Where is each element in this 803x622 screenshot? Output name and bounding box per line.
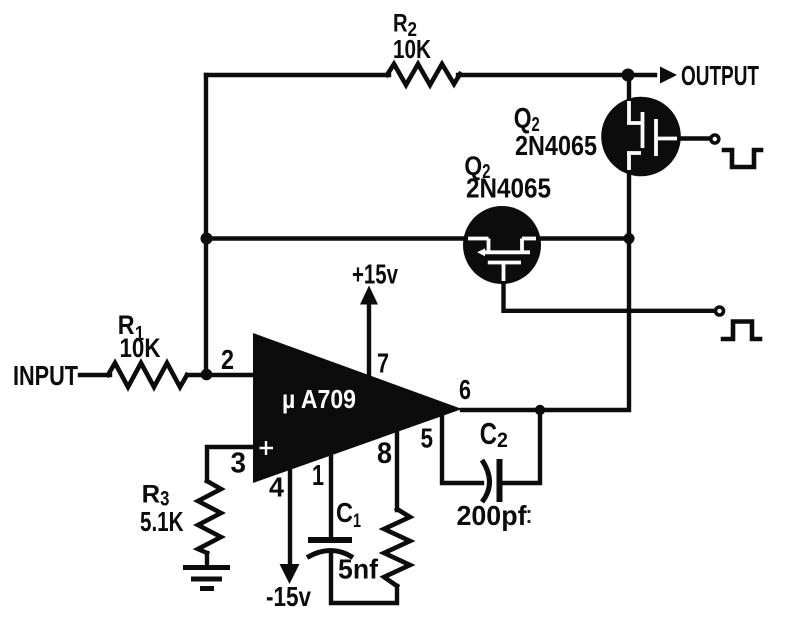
label + non-inverting input — [260, 441, 274, 455]
wire input to pin 2 — [187, 373, 253, 377]
arrow +15V — [360, 286, 378, 305]
resistor R2 — [387, 64, 460, 85]
ground — [183, 568, 230, 589]
svg-text:OUTPUT: OUTPUT — [681, 60, 759, 91]
node junction top right — [622, 69, 635, 82]
svg-text:5nf: 5nf — [338, 554, 379, 585]
svg-text:2N4065: 2N4065 — [466, 173, 551, 204]
wire pin 3 lead — [207, 447, 253, 481]
capacitor C1 — [307, 540, 353, 558]
svg-text:C: C — [336, 497, 353, 528]
svg-text:2N4065: 2N4065 — [515, 130, 597, 161]
svg-text:µ A709: µ A709 — [282, 384, 356, 414]
node junction C2 output — [535, 405, 545, 415]
svg-text:INPUT: INPUT — [13, 360, 78, 391]
svg-text:+15v: +15v — [352, 259, 399, 290]
svg-text:1: 1 — [353, 511, 361, 532]
transistor Q2 upper (2N4065) — [601, 97, 681, 177]
wire input lead — [80, 373, 110, 377]
svg-text:10K: 10K — [120, 333, 161, 363]
wire C1 bottom to resistor bottom — [331, 552, 397, 603]
transistor Q2 lower (2N4065) — [463, 206, 541, 284]
svg-text:-15v: -15v — [266, 581, 311, 612]
terminal upper gate — [711, 135, 719, 143]
wire top rail left segment — [206, 73, 389, 77]
node junction left rail — [201, 233, 213, 245]
wire R3 to ground — [205, 553, 209, 565]
svg-text:6: 6 — [459, 374, 471, 405]
wire lower Q2 gate to terminal — [504, 283, 715, 311]
svg-text:200pf: 200pf — [457, 500, 528, 531]
wire pin 5 lead — [442, 415, 482, 483]
wire pin 7 supply lead — [367, 304, 371, 375]
capacitor C2 — [482, 459, 500, 502]
svg-text:1: 1 — [312, 460, 324, 492]
svg-text:8: 8 — [377, 437, 392, 470]
node junction input — [201, 369, 213, 381]
svg-text:4: 4 — [269, 472, 284, 503]
waveform symbol negative pulse — [724, 150, 761, 167]
svg-text:10K: 10K — [393, 34, 431, 64]
svg-text:2: 2 — [497, 429, 508, 452]
op-amp U1 uA709 — [253, 333, 462, 483]
wire left vertical rail — [204, 75, 208, 375]
resistor pin 8 compensation — [384, 509, 410, 586]
svg-text:5.1K: 5.1K — [140, 506, 184, 537]
svg-text:R: R — [142, 481, 161, 509]
resistor R1 — [108, 363, 187, 387]
wire C2 to output node — [500, 412, 540, 483]
svg-text:2: 2 — [221, 344, 234, 375]
resistor R3 — [198, 481, 221, 553]
wire upper Q2 gate lead — [680, 136, 710, 140]
arrow -15V — [280, 564, 300, 584]
wire pin 4 supply lead — [288, 469, 292, 564]
terminal lower gate — [716, 307, 724, 315]
output arrowhead — [660, 67, 677, 84]
wire top rail right segment — [458, 73, 655, 77]
wire mid horizontal to Q2 lower — [206, 236, 629, 240]
waveform symbol positive pulse — [723, 322, 760, 340]
svg-text:7: 7 — [377, 348, 389, 379]
wire pin 8 lead — [395, 432, 399, 510]
wire right vertical rail — [462, 75, 629, 410]
node junction right rail mid — [624, 233, 635, 244]
svg-text:5: 5 — [421, 423, 434, 454]
label 200pf colon speck — [527, 510, 530, 513]
wire pin 1 lead — [329, 455, 333, 537]
svg-text:3: 3 — [231, 448, 247, 480]
svg-text:C: C — [480, 416, 497, 451]
